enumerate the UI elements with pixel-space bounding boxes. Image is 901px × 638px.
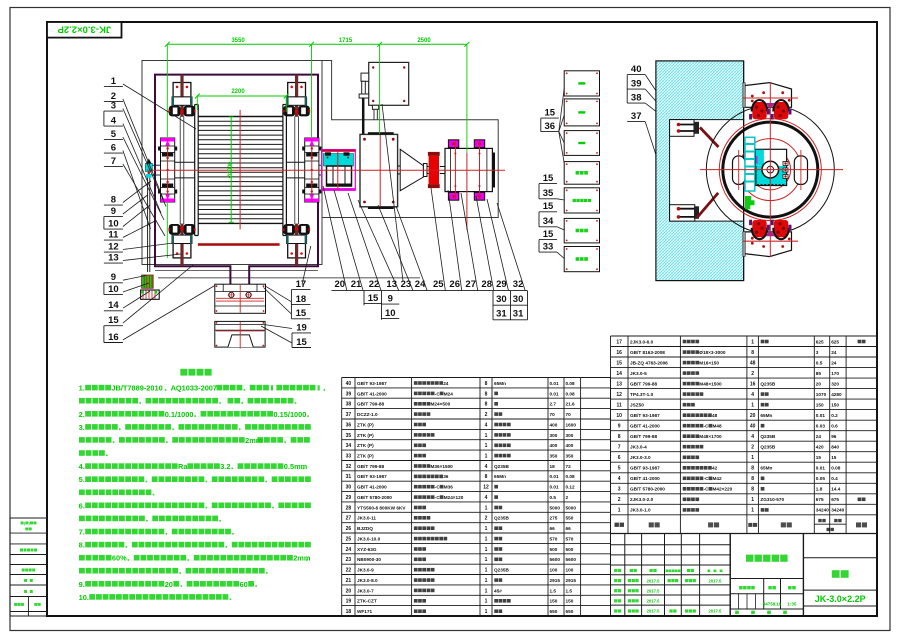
svg-text:18: 18 [296, 294, 307, 305]
svg-text:M24: M24 [444, 391, 454, 396]
svg-text:36: 36 [545, 121, 556, 132]
svg-text:12: 12 [108, 242, 119, 253]
svg-text:45#: 45# [494, 588, 502, 593]
detail view rope clamp [215, 284, 266, 313]
svg-text:20: 20 [346, 588, 352, 594]
svg-text:ZTK (P): ZTK (P) [357, 443, 374, 448]
svg-text:15: 15 [296, 337, 307, 348]
svg-text:70: 70 [566, 412, 572, 417]
svg-text:0.01: 0.01 [550, 391, 560, 396]
svg-text:0.01: 0.01 [550, 485, 560, 490]
svg-text:10: 10 [616, 413, 622, 419]
svg-text:8: 8 [485, 391, 488, 397]
svg-text:500: 500 [566, 547, 574, 552]
svg-text:0.08: 0.08 [831, 466, 841, 471]
svg-text:150: 150 [816, 403, 824, 408]
svg-text:11: 11 [617, 403, 623, 409]
svg-text:0.4: 0.4 [831, 476, 838, 481]
motor box (plan) [369, 62, 409, 105]
svg-text:39: 39 [346, 391, 352, 397]
dimension D3000 drum [230, 117, 232, 222]
svg-text:BJZDQ: BJZDQ [357, 526, 373, 531]
svg-text:60%: 60% [112, 554, 127, 563]
svg-text:31: 31 [496, 308, 507, 319]
svg-text:400: 400 [566, 443, 574, 448]
svg-text:M48×1500: M48×1500 [699, 382, 722, 387]
svg-text:1: 1 [485, 505, 488, 511]
svg-text:1: 1 [485, 578, 488, 584]
svg-text:32: 32 [346, 464, 352, 470]
svg-text:ZTK (P): ZTK (P) [357, 454, 374, 459]
svg-text:22: 22 [346, 568, 352, 574]
svg-text:29: 29 [346, 495, 352, 501]
lower anchor bracket [670, 205, 695, 221]
svg-text:GB/T 41-2000: GB/T 41-2000 [630, 476, 660, 481]
svg-text:8: 8 [751, 476, 754, 482]
svg-text:1.8: 1.8 [816, 487, 823, 492]
svg-text:36: 36 [346, 422, 352, 428]
svg-text:-C: -C [704, 476, 710, 481]
svg-text:8: 8 [111, 195, 116, 206]
svg-text:1: 1 [485, 433, 488, 439]
svg-text:400: 400 [550, 422, 558, 427]
svg-text:2: 2 [618, 497, 621, 503]
svg-text:12: 12 [616, 392, 622, 398]
svg-text:15: 15 [616, 360, 622, 366]
svg-text:40: 40 [750, 424, 756, 430]
svg-text:34: 34 [543, 216, 554, 227]
svg-text:1: 1 [751, 497, 754, 503]
svg-text:3.2: 3.2 [220, 462, 230, 471]
svg-text:2.: 2. [79, 410, 85, 419]
svg-text:21: 21 [346, 578, 352, 584]
svg-text:GB/T 5780-2000: GB/T 5780-2000 [357, 495, 392, 500]
svg-text:30: 30 [346, 485, 352, 491]
svg-text:M16×150: M16×150 [699, 360, 719, 365]
svg-text:GB/T 41-2000: GB/T 41-2000 [630, 424, 660, 429]
electrical cabinets [564, 71, 599, 96]
svg-text:Ø3000: Ø3000 [227, 162, 233, 179]
svg-text:2JK3.0-2.0: 2JK3.0-2.0 [630, 497, 654, 502]
svg-text:2915: 2915 [550, 578, 561, 583]
svg-text:JSZ50: JSZ50 [630, 403, 644, 408]
jack / anchor detail [142, 275, 154, 288]
svg-text:26: 26 [346, 526, 352, 532]
svg-text:4: 4 [111, 116, 117, 127]
svg-text:66: 66 [566, 526, 572, 531]
svg-text:Q235B: Q235B [760, 382, 775, 387]
svg-text:1: 1 [485, 568, 488, 574]
title block [611, 533, 731, 535]
left indicator assembly [145, 164, 152, 172]
svg-text:24: 24 [831, 350, 837, 355]
left margin block [10, 517, 47, 519]
svg-text:0.15/1000: 0.15/1000 [274, 410, 307, 419]
svg-text:7.: 7. [79, 528, 85, 537]
svg-text:500: 500 [550, 547, 558, 552]
bottom leaders [323, 186, 347, 290]
svg-text:675: 675 [831, 497, 839, 502]
svg-text:65Mn: 65Mn [494, 474, 506, 479]
svg-text:275: 275 [550, 516, 558, 521]
svg-text:4: 4 [751, 434, 754, 440]
svg-text:-C: -C [435, 495, 441, 500]
bearing block 3 [445, 148, 492, 191]
svg-text:24: 24 [816, 434, 822, 439]
svg-text:40: 40 [631, 64, 642, 75]
svg-text:15: 15 [543, 173, 554, 184]
main view enclosure B outline [322, 61, 498, 218]
svg-text:60: 60 [240, 580, 248, 589]
svg-text:72: 72 [566, 464, 572, 469]
svg-text:25: 25 [346, 536, 352, 542]
output cone and shaft [400, 149, 423, 190]
svg-text:5: 5 [111, 129, 117, 140]
svg-text:4: 4 [618, 476, 621, 482]
wall cutout [670, 120, 744, 222]
svg-text:JB-ZQ 4763-2006: JB-ZQ 4763-2006 [630, 360, 668, 365]
svg-text:16: 16 [108, 332, 119, 343]
svg-text:37: 37 [346, 412, 352, 418]
svg-text:2: 2 [566, 495, 569, 500]
svg-text:9.: 9. [79, 580, 85, 589]
svg-text:3: 3 [618, 487, 621, 493]
svg-text:Q235B: Q235B [760, 434, 775, 439]
svg-text:M42: M42 [713, 476, 723, 481]
svg-text:4: 4 [485, 495, 488, 501]
svg-text:XYZ-63G: XYZ-63G [357, 547, 377, 552]
svg-text:-C: -C [704, 487, 710, 492]
svg-text:19: 19 [346, 599, 352, 605]
svg-text:GB/T 8163-2008: GB/T 8163-2008 [630, 350, 665, 355]
svg-text:4: 4 [485, 422, 488, 428]
svg-text:8: 8 [751, 487, 754, 493]
svg-text:170: 170 [831, 371, 839, 376]
side view centerlines [700, 169, 843, 171]
svg-text:7: 7 [618, 445, 621, 451]
svg-text:4.: 4. [79, 462, 85, 471]
svg-text:1: 1 [485, 526, 488, 532]
svg-text:1: 1 [751, 508, 754, 514]
svg-text:JK3.0-5: JK3.0-5 [630, 371, 647, 376]
svg-text:8: 8 [485, 474, 488, 480]
svg-text:16: 16 [616, 350, 622, 356]
svg-text:34240: 34240 [816, 508, 829, 513]
svg-text:0.1/1000: 0.1/1000 [165, 410, 194, 419]
svg-text:23: 23 [346, 557, 352, 563]
svg-text:2017.5: 2017.5 [647, 588, 660, 593]
svg-text:1070: 1070 [816, 392, 827, 397]
svg-text:65Mn: 65Mn [760, 466, 772, 471]
svg-text:1715: 1715 [339, 38, 353, 44]
svg-text:33: 33 [346, 454, 352, 460]
svg-text:6: 6 [618, 455, 621, 461]
svg-text:M36×1500: M36×1500 [431, 464, 454, 469]
leader lines left [123, 84, 196, 129]
svg-text:5.: 5. [79, 475, 85, 484]
svg-text:2017.5: 2017.5 [709, 609, 722, 614]
svg-text:5600: 5600 [550, 557, 561, 562]
svg-text:8: 8 [618, 434, 621, 440]
svg-text:350: 350 [550, 454, 558, 459]
svg-text:GB/T 41-2000: GB/T 41-2000 [357, 391, 387, 396]
svg-text:0.01: 0.01 [816, 466, 826, 471]
svg-text:840: 840 [831, 445, 839, 450]
svg-text:4: 4 [751, 392, 754, 398]
svg-text:300: 300 [550, 433, 558, 438]
svg-text:2: 2 [751, 371, 754, 377]
detail view support [215, 321, 265, 347]
svg-text:0.5: 0.5 [816, 360, 823, 365]
dimension 2200 [197, 95, 286, 97]
svg-text:7: 7 [111, 156, 116, 167]
svg-text:36: 36 [443, 474, 449, 479]
svg-text:10: 10 [108, 219, 119, 230]
svg-text:-C: -C [435, 391, 441, 396]
svg-text:420: 420 [816, 445, 824, 450]
svg-text:66: 66 [550, 526, 556, 531]
svg-text:GB/T 93-1987: GB/T 93-1987 [357, 381, 387, 386]
svg-text:2500: 2500 [417, 38, 431, 44]
svg-text:30: 30 [496, 294, 507, 305]
svg-text:1600: 1600 [566, 422, 577, 427]
svg-text:2017.5: 2017.5 [709, 578, 722, 583]
svg-text:ZTK (P): ZTK (P) [357, 422, 374, 427]
svg-text:30: 30 [513, 294, 524, 305]
svg-text:18: 18 [550, 464, 556, 469]
rope holes [733, 156, 746, 185]
svg-text:8: 8 [485, 381, 488, 387]
svg-text:Q235B: Q235B [494, 568, 509, 573]
svg-text:1: 1 [485, 454, 488, 460]
svg-text:0.08: 0.08 [566, 474, 576, 479]
svg-text:5000: 5000 [566, 505, 577, 510]
svg-text:JK-3.0×2.2P: JK-3.0×2.2P [57, 23, 111, 34]
svg-text:15: 15 [543, 201, 554, 212]
svg-text:1.5: 1.5 [566, 588, 573, 593]
title label box top-left [47, 22, 122, 38]
svg-text:2: 2 [485, 412, 488, 418]
svg-text:25: 25 [433, 279, 444, 290]
svg-text:2200: 2200 [231, 89, 245, 95]
svg-text:8: 8 [751, 466, 754, 472]
svg-text:675: 675 [816, 497, 824, 502]
svg-text:6: 6 [111, 143, 116, 154]
svg-text:M42×220: M42×220 [713, 487, 733, 492]
svg-text:2: 2 [485, 516, 488, 522]
svg-text:Q235B: Q235B [494, 516, 509, 521]
svg-text:GB/T 799-88: GB/T 799-88 [357, 402, 384, 407]
svg-text:0.01: 0.01 [550, 474, 560, 479]
svg-text:0.6: 0.6 [831, 424, 838, 429]
upper anchor bracket [670, 120, 694, 137]
svg-text:9: 9 [618, 424, 621, 430]
svg-text:1: 1 [485, 547, 488, 553]
svg-text:12: 12 [483, 485, 489, 491]
svg-text:YTS500-8 800KW 6KV: YTS500-8 800KW 6KV [357, 505, 406, 510]
svg-text:650: 650 [566, 609, 574, 614]
svg-text:JK3.0-11: JK3.0-11 [357, 516, 376, 521]
svg-text:625: 625 [816, 339, 824, 344]
svg-text:21.6: 21.6 [566, 402, 576, 407]
svg-text:AQ1033-2007: AQ1033-2007 [171, 384, 217, 393]
svg-text:Q235B: Q235B [494, 464, 509, 469]
svg-text:24: 24 [831, 360, 837, 365]
hub block [756, 149, 787, 185]
svg-text:0.5: 0.5 [550, 495, 557, 500]
main shaft edges [175, 161, 195, 163]
svg-text:0.03: 0.03 [816, 424, 826, 429]
svg-text:35: 35 [346, 433, 352, 439]
svg-text:17: 17 [616, 339, 622, 345]
svg-text:3.: 3. [79, 423, 85, 432]
svg-text:1: 1 [485, 599, 488, 605]
technical requirements text [180, 369, 187, 376]
brake disc edges [179, 116, 181, 224]
svg-text:M48: M48 [713, 424, 723, 429]
brake units (4x disc brake post) [173, 83, 191, 98]
centerlines [147, 169, 505, 171]
svg-text:JK3.0-10.0: JK3.0-10.0 [357, 536, 381, 541]
svg-text:Q235B: Q235B [760, 445, 775, 450]
hub ladder (cyan) [745, 137, 755, 191]
svg-text:1: 1 [751, 339, 754, 345]
svg-text:29: 29 [496, 279, 507, 290]
svg-text:14.4: 14.4 [831, 487, 841, 492]
svg-text:1: 1 [111, 76, 117, 87]
svg-text:38: 38 [346, 402, 352, 408]
svg-text:15: 15 [543, 229, 554, 240]
svg-text:300: 300 [566, 433, 574, 438]
svg-text:20: 20 [750, 413, 756, 419]
svg-text:37: 37 [631, 111, 642, 122]
svg-text:JK3.0-3.0: JK3.0-3.0 [630, 455, 651, 460]
svg-text:GB/T 41-2000: GB/T 41-2000 [357, 485, 387, 490]
svg-text:31: 31 [513, 308, 524, 319]
svg-text:9: 9 [111, 206, 116, 217]
svg-text:570: 570 [566, 536, 574, 541]
svg-text:1: 1 [485, 609, 488, 615]
svg-text:320: 320 [831, 382, 839, 387]
svg-text:28: 28 [346, 505, 352, 511]
svg-text:0.01: 0.01 [550, 381, 560, 386]
svg-text:GB/T 799-88: GB/T 799-88 [630, 382, 657, 387]
svg-text:-C: -C [435, 485, 441, 490]
svg-text:6.: 6. [79, 501, 85, 510]
svg-text:31: 31 [346, 474, 352, 480]
BOM parts list table [342, 377, 611, 379]
svg-text:400: 400 [550, 443, 558, 448]
svg-text:0.05: 0.05 [816, 476, 826, 481]
svg-text:625: 625 [831, 339, 839, 344]
svg-text:20: 20 [816, 382, 822, 387]
svg-text:65Mn: 65Mn [760, 413, 772, 418]
svg-text:15: 15 [816, 455, 822, 460]
svg-text:JK3.0-1.0: JK3.0-1.0 [630, 508, 651, 513]
svg-text:10: 10 [108, 284, 119, 295]
svg-text:ZTK (P): ZTK (P) [357, 433, 374, 438]
svg-text:GB/T 93-1987: GB/T 93-1987 [630, 466, 660, 471]
svg-text:Ra: Ra [178, 462, 188, 471]
svg-text:65Mn: 65Mn [494, 381, 506, 386]
svg-text:M48×1700: M48×1700 [699, 434, 722, 439]
svg-text:18: 18 [346, 609, 352, 615]
main frame outline (purple) [155, 75, 318, 285]
svg-text:10.: 10. [79, 593, 89, 602]
svg-text:38: 38 [631, 93, 642, 104]
svg-text:85: 85 [816, 371, 822, 376]
svg-text:13: 13 [386, 279, 397, 290]
green indicator blob [745, 196, 755, 209]
svg-text:9: 9 [388, 294, 393, 305]
dimension 3550/1715/2500 [167, 43, 467, 45]
svg-text:1:35: 1:35 [787, 601, 797, 606]
svg-text:4280: 4280 [831, 392, 842, 397]
svg-text:20: 20 [335, 279, 346, 290]
svg-text:1: 1 [751, 455, 754, 461]
svg-text:5000: 5000 [550, 505, 561, 510]
svg-text:19: 19 [296, 322, 307, 333]
svg-text:5: 5 [618, 466, 621, 472]
svg-text:M24×500: M24×500 [431, 402, 451, 407]
red beam under drum [198, 243, 280, 246]
svg-text:2915: 2915 [566, 578, 577, 583]
bearing pedestals [161, 138, 175, 202]
svg-text:150: 150 [566, 599, 574, 604]
svg-text:100: 100 [566, 568, 574, 573]
svg-text:16: 16 [750, 382, 756, 388]
svg-text:0.01: 0.01 [816, 413, 826, 418]
svg-text:10: 10 [385, 308, 396, 319]
svg-text:2017.5: 2017.5 [647, 609, 660, 614]
drum flanges [194, 105, 196, 236]
svg-text:8: 8 [485, 402, 488, 408]
svg-text:DCZZ-1.0: DCZZ-1.0 [357, 412, 378, 417]
svg-text:26: 26 [449, 279, 460, 290]
svg-text:0.08: 0.08 [566, 391, 576, 396]
svg-text:14: 14 [108, 300, 119, 311]
svg-text:48: 48 [750, 360, 756, 366]
svg-text:2017.5: 2017.5 [647, 578, 660, 583]
floor line [158, 277, 420, 279]
svg-text:13: 13 [616, 382, 622, 388]
svg-text:15: 15 [296, 308, 307, 319]
svg-text:8.: 8. [79, 541, 85, 550]
svg-text:WF171: WF171 [357, 609, 373, 614]
svg-text:15: 15 [368, 293, 379, 304]
svg-text:JK-3.0×2.2P: JK-3.0×2.2P [815, 594, 866, 604]
svg-text:550: 550 [566, 516, 574, 521]
BOM header row [611, 533, 878, 535]
svg-text:84758.16: 84758.16 [763, 601, 782, 606]
svg-text:3: 3 [816, 350, 819, 355]
svg-text:1: 1 [751, 403, 754, 409]
svg-text:39: 39 [631, 79, 642, 90]
svg-text:96: 96 [831, 434, 837, 439]
svg-text:17: 17 [296, 279, 307, 290]
svg-text:9: 9 [111, 272, 116, 283]
svg-text:1.5: 1.5 [550, 588, 557, 593]
svg-text:11: 11 [108, 230, 119, 241]
svg-text:33: 33 [543, 242, 554, 253]
svg-text:GB/T 799-88: GB/T 799-88 [357, 464, 384, 469]
svg-text:14: 14 [616, 371, 622, 377]
svg-text:TP4.3T-1.0: TP4.3T-1.0 [630, 392, 654, 397]
svg-text:M36: M36 [444, 485, 454, 490]
svg-text:M24×120: M24×120 [444, 495, 464, 500]
svg-text:40: 40 [346, 381, 352, 387]
brake actuation struts [700, 127, 719, 147]
